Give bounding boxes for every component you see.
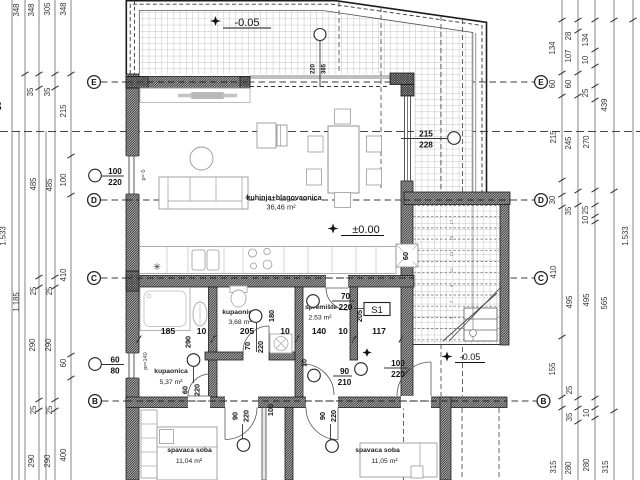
svg-text:100: 100 [391,359,405,368]
wall B door gap bath [188,396,210,409]
svg-text:2,53 m²: 2,53 m² [308,315,332,322]
north-east corner pier [390,73,414,85]
svg-text:495: 495 [582,293,591,307]
svg-text:365: 365 [322,63,328,74]
left margin dimension chain lines [12,0,71,480]
window marker 60/80 [89,356,124,376]
svg-text:220: 220 [329,410,338,422]
svg-text:220: 220 [242,410,251,422]
axis B dashes through door gaps [186,400,260,402]
svg-text:10: 10 [280,326,290,336]
svg-text:✳: ✳ [153,262,161,273]
sofa [159,177,248,209]
door marker 90/210 hall [308,367,352,387]
svg-text:290: 290 [43,454,52,468]
svg-text:220: 220 [339,303,353,312]
interior vertical dimension labels [184,248,413,416]
window marker 365/220 north [311,29,328,88]
roof line x340 [338,2,340,73]
axis C overdraw on walls [126,277,414,279]
terrace floor tiles [139,11,473,192]
opening marker 215/228 [401,130,460,150]
svg-text:290: 290 [184,336,193,348]
svg-text:348: 348 [59,2,68,15]
bathroom partition wall x213 [209,287,218,397]
terrace parapet second dashed left [133,0,135,74]
axis C dashes through spremiste door gap [326,277,348,279]
wall C spremiste door opening [326,275,348,289]
svg-text:495: 495 [565,295,574,309]
roof line x381 [380,7,382,191]
svg-text:60: 60 [548,79,557,88]
dining table with chairs [307,109,382,208]
door arc bathroom 3,68 [243,326,269,352]
svg-text:3,68 m²: 3,68 m² [228,319,252,326]
bathtub [140,288,190,331]
terrace parapet outer edge [126,1,486,192]
svg-text:36,46 m²: 36,46 m² [266,203,296,212]
svg-text:D: D [538,196,544,205]
door arc spremiste [326,288,348,310]
bedroom1 wardrobe [141,410,157,478]
door marker 70/220 bathroom1 [243,310,265,353]
svg-text:280: 280 [582,458,591,472]
svg-text:410: 410 [549,265,558,279]
svg-text:1.533: 1.533 [0,226,8,246]
grid axis B [89,395,550,408]
roof line x462 upper [462,19,464,396]
wall C west junction block [126,271,139,291]
svg-text:400: 400 [59,448,68,462]
terrace parapet inner edge [139,11,473,193]
svg-text:11,04 m²: 11,04 m² [176,458,203,465]
north wall window sill lines [250,75,390,77]
section cut line [0,131,640,133]
kitchen counter with sink and hob [140,244,419,274]
svg-text:100: 100 [59,173,68,187]
right margin dimension ticks [559,18,637,424]
svg-text:C: C [538,274,544,283]
svg-text:1.185: 1.185 [12,292,21,312]
svg-text:B: B [541,397,547,406]
svg-text:25: 25 [565,385,574,394]
svg-text:spavaca soba: spavaca soba [167,447,212,454]
svg-text:10: 10 [197,326,207,336]
svg-text:p= 0: p= 0 [141,169,147,180]
svg-text:-0.05: -0.05 [234,17,259,29]
door marker 100/220 entry [355,359,408,379]
svg-text:10: 10 [581,215,590,224]
svg-text:3: 3 [0,99,2,114]
svg-text:134: 134 [548,41,557,55]
svg-text:D: D [91,196,97,205]
svg-text:17: 17 [449,219,454,224]
svg-text:10: 10 [300,359,309,367]
svg-text:315: 315 [601,460,610,474]
stairwell east wall [500,205,509,346]
svg-text:60: 60 [110,356,120,365]
svg-text:410: 410 [59,268,68,282]
svg-text:13: 13 [449,251,454,256]
svg-text:10: 10 [582,408,591,417]
svg-text:spavaca soba: spavaca soba [355,447,400,454]
svg-text:140: 140 [312,326,327,336]
toilet [230,286,247,307]
door arc bedroom2 [306,408,338,440]
north wall west pier block [126,77,148,89]
svg-text:28: 28 [564,32,573,41]
terrace parapet inner edge second [475,33,477,192]
svg-text:348: 348 [12,3,21,16]
svg-text:228: 228 [419,141,433,150]
svg-text:220: 220 [193,384,202,396]
axis E overdraw on walls [126,81,250,83]
svg-text:220: 220 [391,370,405,379]
door arc hall 90 [303,364,334,395]
svg-text:348: 348 [27,3,36,16]
north wall east pier block [240,77,250,89]
svg-text:220: 220 [108,178,122,187]
stairwell floor tiles [414,205,500,345]
svg-text:15: 15 [449,235,454,240]
door arc bedroom1 [225,408,257,440]
wall axis D [404,192,510,205]
svg-text:290: 290 [28,338,37,352]
svg-text:25: 25 [29,286,38,295]
svg-text:pr=140: pr=140 [143,352,149,370]
svg-text:215: 215 [59,104,68,118]
svg-text:35: 35 [26,87,35,96]
svg-text:155: 155 [548,362,557,376]
interior horizontal dimension string [137,326,403,343]
svg-text:35: 35 [565,412,574,421]
svg-text:205: 205 [355,310,364,322]
roof line x499 lower [498,408,500,480]
svg-text:kupaonica: kupaonica [154,368,188,375]
mid partition wall y356 west [205,352,243,360]
svg-text:185: 185 [161,326,176,336]
roof line x403 lower [403,205,405,480]
window marker 100/220 [89,167,124,187]
grid axis E [88,76,548,89]
stairwell west wall [401,181,413,397]
bedroom2 bed [360,443,437,478]
staircase [413,205,501,341]
svg-text:215: 215 [419,130,433,139]
armchair [257,123,287,148]
svg-text:60: 60 [181,386,190,394]
svg-text:280: 280 [564,461,573,475]
svg-text:E: E [538,78,544,87]
svg-text:25: 25 [581,88,590,97]
svg-text:25: 25 [45,405,54,414]
door marker 90/220 bedroom1 [231,410,251,451]
axis D overdraw on walls [126,199,139,201]
grid axis C [88,272,548,285]
svg-text:10: 10 [338,326,348,336]
roof line x441 [440,16,442,396]
svg-text:C: C [91,274,97,283]
stair label S1 [354,308,364,310]
west wall window upper glazing [128,156,130,194]
door arc bathroom 5,37 [188,374,210,396]
svg-text:485: 485 [29,177,38,191]
svg-text:60: 60 [401,252,410,260]
door marker 90/220 bedroom2 [318,410,338,452]
svg-text:245: 245 [564,136,573,150]
north-east corner pier leg [401,85,414,97]
left margin dimension labels [0,2,68,468]
svg-text:290: 290 [27,454,36,468]
bedroom partition wall x289 [285,408,293,480]
tv sideboard [140,88,250,103]
glass wall east of living room [404,96,406,181]
west wall window upper gap [125,156,140,194]
wall B door gap entry [401,396,431,409]
roof line x462 lower [461,408,463,480]
svg-text:117: 117 [372,326,386,336]
pedestal sink [193,302,207,326]
svg-text:220: 220 [256,341,265,353]
svg-text:5,37 m²: 5,37 m² [159,379,183,386]
svg-text:305: 305 [43,2,52,16]
svg-text:30: 30 [548,195,557,204]
wall axis C [126,276,414,288]
svg-text:220: 220 [311,63,317,74]
right margin dimension labels [548,32,630,475]
west wall window lower gap [125,353,140,378]
svg-text:10: 10 [581,55,590,64]
svg-text:E: E [91,78,97,87]
svg-text:270: 270 [582,135,591,149]
svg-text:107: 107 [564,49,573,62]
terrace level -0.05 [211,16,221,26]
svg-text:100: 100 [108,167,122,176]
exterior west wall [126,74,139,480]
svg-text:25: 25 [45,286,54,295]
svg-text:±0.00: ±0.00 [352,224,379,236]
svg-text:70: 70 [243,342,252,350]
hall floor drain star [363,348,371,356]
svg-text:60: 60 [564,79,573,88]
door arc entry 100 [397,362,431,396]
left margin dimension ticks [22,72,75,412]
svg-text:485: 485 [45,178,54,192]
svg-text:kuhinja+blagovaonica: kuhinja+blagovaonica [246,193,322,202]
svg-text:290: 290 [44,338,53,352]
bedroom2 east wall [440,397,451,480]
north wall (axis E) [126,77,250,89]
door marker 60/220 bathroom2 [181,354,202,396]
svg-text:315: 315 [549,460,558,474]
svg-text:439: 439 [600,98,609,111]
bedroom partition thin wall x263 [262,408,266,480]
svg-text:25: 25 [581,205,590,214]
stairwell south edge line [413,344,500,346]
svg-text:180: 180 [267,310,276,322]
svg-text:80: 80 [110,367,120,376]
svg-text:205: 205 [240,326,255,336]
wall axis B [126,397,507,408]
grid axis D [88,194,548,207]
svg-text:100: 100 [266,404,275,416]
wall B door gap bedroom2 [306,396,338,409]
washing machine [270,334,292,353]
svg-text:35: 35 [564,206,573,215]
round coffee table [190,147,213,170]
svg-text:11: 11 [449,267,454,272]
spremiste east partition x353 [350,287,358,360]
svg-text:90: 90 [318,412,327,420]
svg-text:25: 25 [29,405,38,414]
terrace parapet hidden edge dashed [130,4,482,192]
svg-text:565: 565 [600,296,609,310]
right margin dimension chain lines [562,0,633,480]
svg-text:S1: S1 [371,305,383,316]
living level +0.00 [328,224,338,234]
svg-text:70: 70 [341,292,351,301]
svg-text:134: 134 [581,33,590,47]
svg-text:35: 35 [43,87,52,96]
mid partition wall y356 east [269,352,295,360]
stair hall level -0.05 [442,352,452,362]
axis B overdraw on walls [126,400,507,402]
svg-text:-0.05: -0.05 [460,352,481,362]
svg-text:90: 90 [340,367,350,376]
svg-text:90: 90 [231,412,240,420]
svg-text:210: 210 [338,378,352,387]
bathroom east partition x299 [295,287,303,397]
svg-text:60: 60 [59,358,68,367]
door marker 70/220 spremiste [307,292,355,312]
svg-text:11,05 m²: 11,05 m² [371,458,398,465]
west wall window lower glazing [128,353,130,378]
bedroom1 bed [157,427,217,480]
wall B door gap bedroom1 [225,396,258,409]
svg-text:B: B [92,397,98,406]
svg-text:1.533: 1.533 [621,226,630,246]
